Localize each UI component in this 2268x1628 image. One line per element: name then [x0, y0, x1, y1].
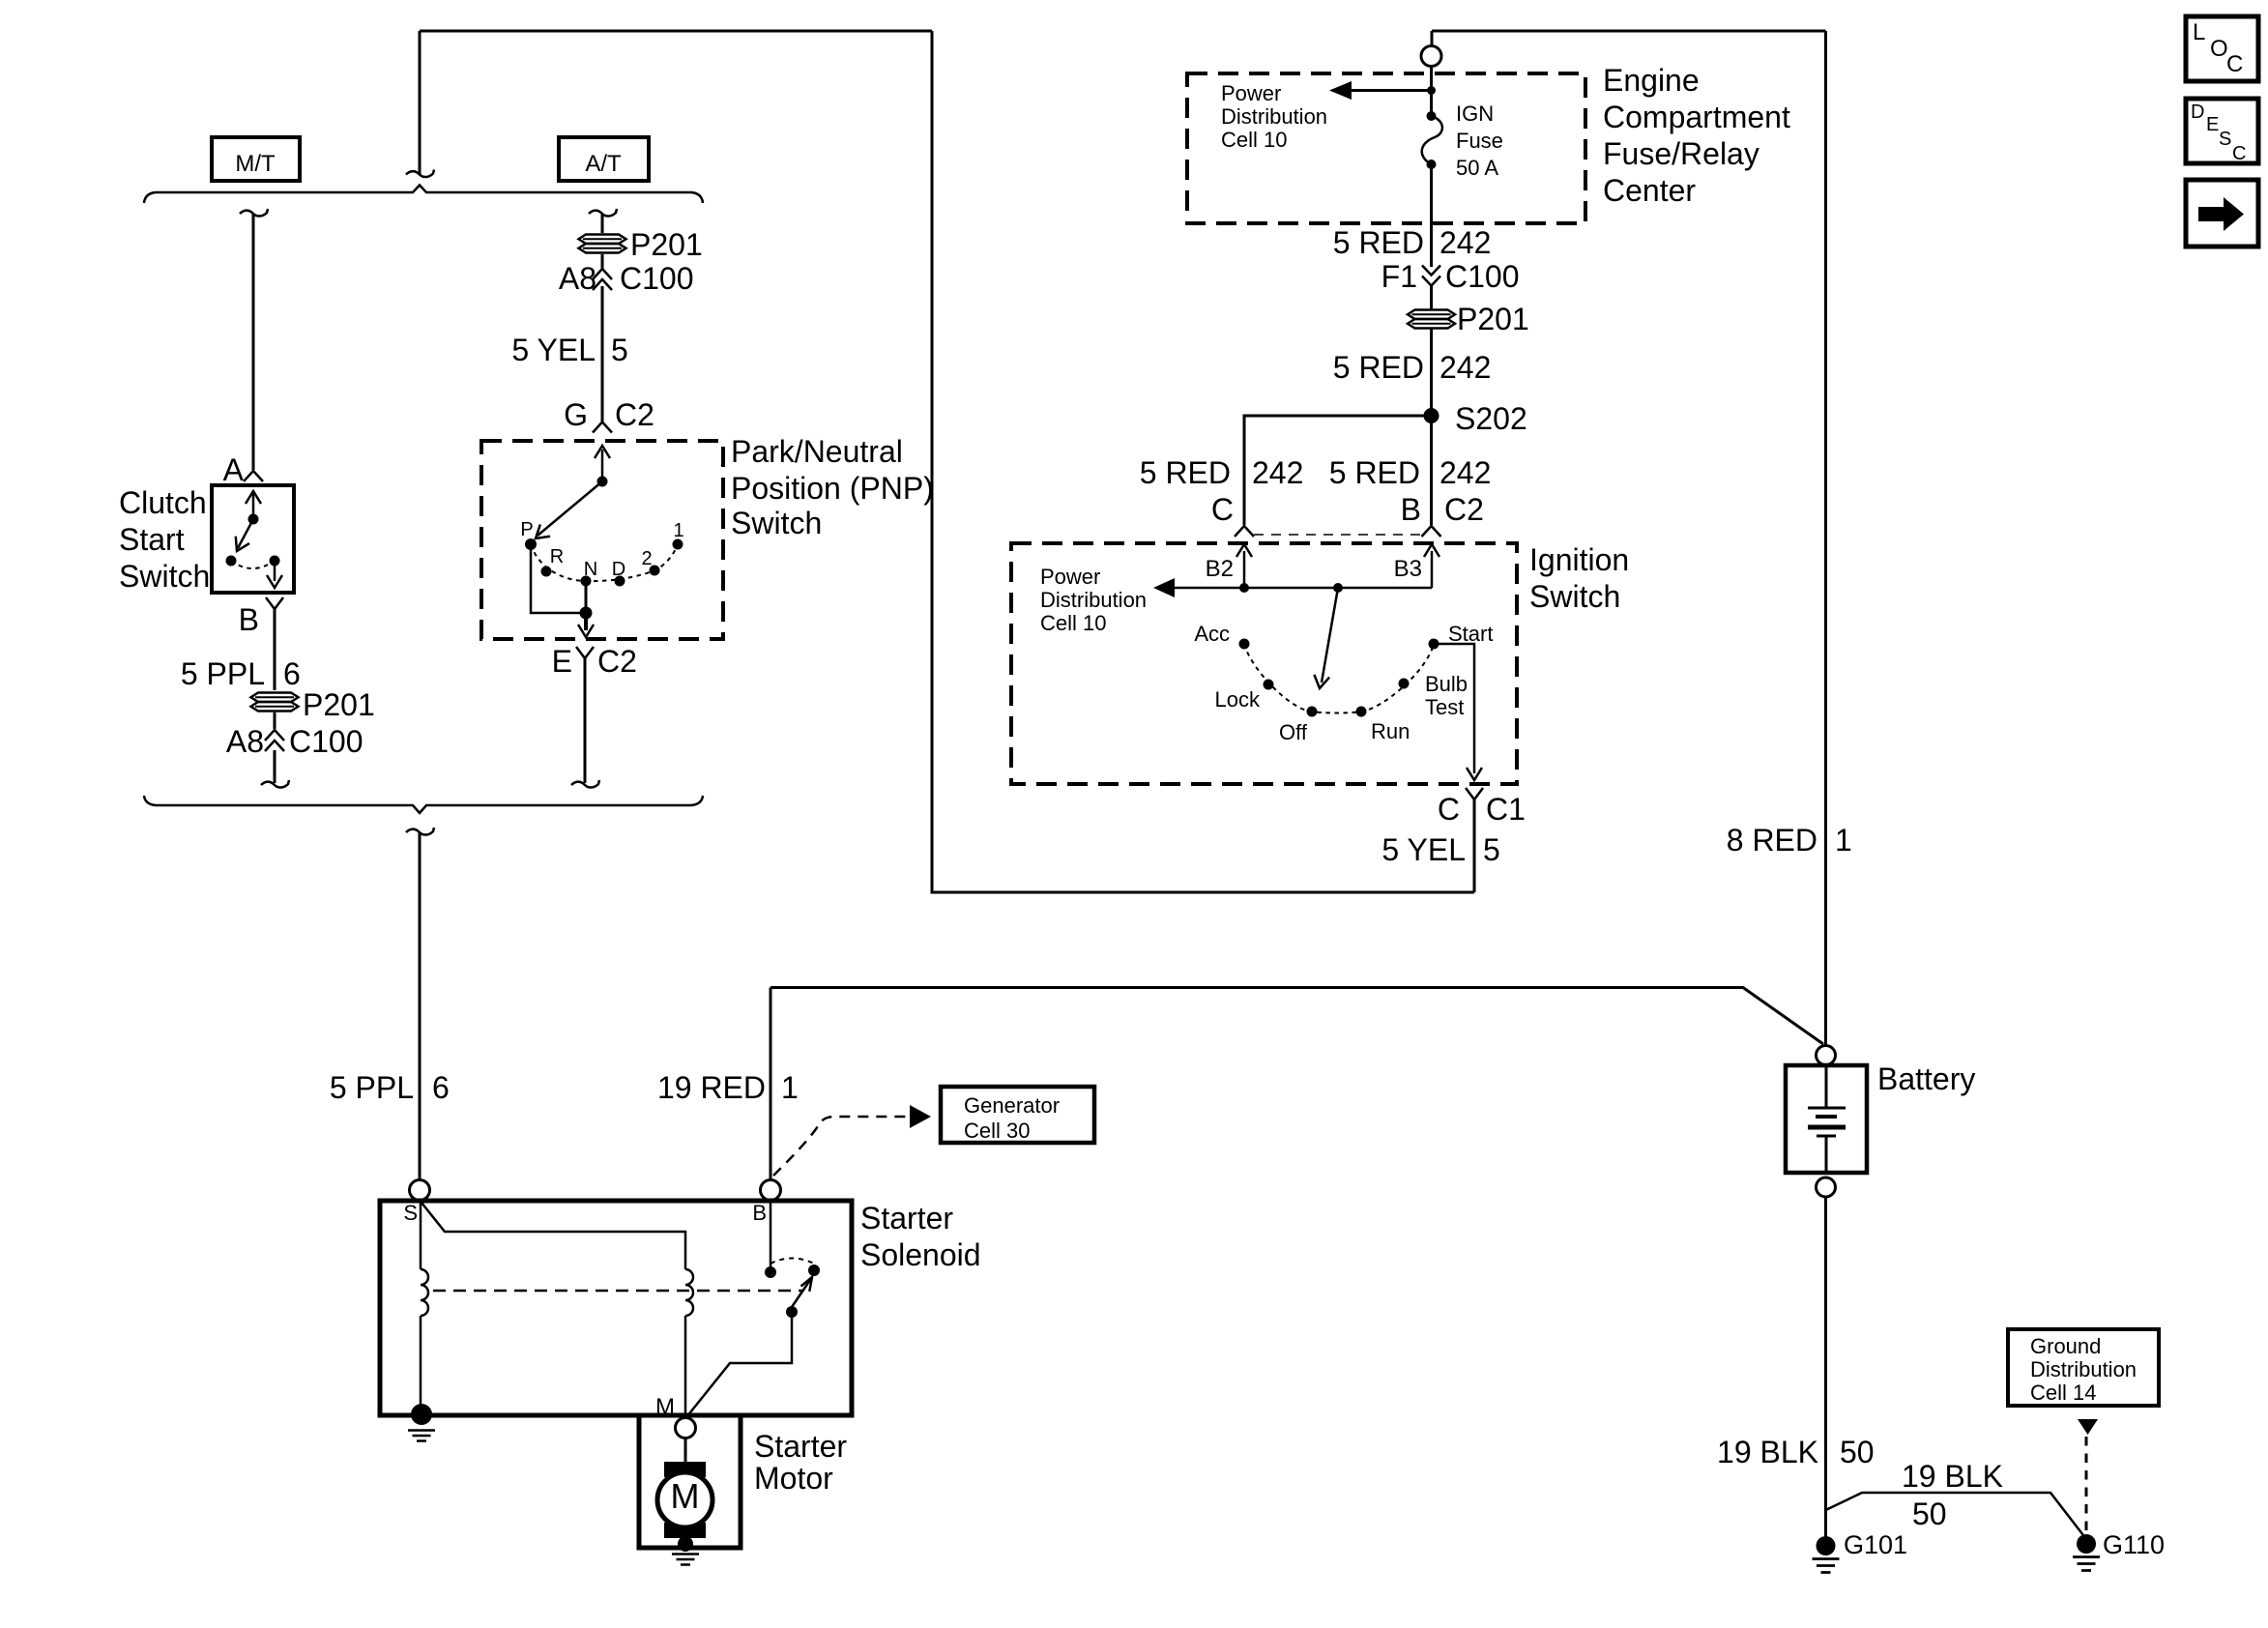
svg-text:A8: A8: [226, 724, 264, 759]
svg-text:C100: C100: [289, 724, 363, 759]
svg-text:F1: F1: [1381, 259, 1417, 294]
svg-text:P201: P201: [1457, 302, 1529, 336]
svg-text:C2: C2: [597, 644, 637, 679]
svg-text:E: E: [2206, 114, 2219, 135]
svg-text:L: L: [2193, 19, 2205, 45]
svg-text:Cell 30: Cell 30: [964, 1119, 1030, 1143]
svg-text:D: D: [612, 559, 625, 580]
svg-text:Compartment: Compartment: [1603, 100, 1790, 134]
svg-text:S: S: [2219, 129, 2231, 150]
svg-text:Cell 14: Cell 14: [2030, 1381, 2096, 1405]
svg-text:5 RED: 5 RED: [1333, 225, 1424, 260]
svg-text:Distribution: Distribution: [2030, 1357, 2137, 1381]
svg-text:C2: C2: [615, 397, 654, 432]
svg-text:A/T: A/T: [585, 151, 622, 177]
svg-text:C: C: [1438, 792, 1460, 827]
svg-text:B2: B2: [1206, 556, 1234, 582]
svg-text:A: A: [223, 452, 245, 487]
svg-text:D: D: [2191, 102, 2204, 123]
svg-text:N: N: [584, 559, 597, 580]
svg-text:Power: Power: [1040, 565, 1100, 589]
svg-text:G110: G110: [2103, 1530, 2165, 1559]
svg-text:O: O: [2210, 36, 2228, 62]
svg-text:S: S: [403, 1201, 418, 1225]
svg-text:Ground: Ground: [2030, 1334, 2101, 1358]
svg-text:G101: G101: [1844, 1530, 1907, 1559]
svg-text:B3: B3: [1394, 556, 1422, 582]
svg-text:S202: S202: [1455, 401, 1527, 436]
svg-text:Center: Center: [1603, 173, 1696, 208]
svg-text:Fuse/Relay: Fuse/Relay: [1603, 136, 1759, 171]
svg-text:242: 242: [1439, 455, 1491, 490]
svg-text:A8: A8: [559, 261, 596, 296]
svg-text:242: 242: [1439, 225, 1491, 260]
svg-text:C1: C1: [1486, 792, 1526, 827]
svg-text:Power: Power: [1221, 81, 1281, 105]
svg-text:B: B: [1401, 492, 1421, 527]
svg-text:Generator: Generator: [964, 1093, 1060, 1118]
svg-text:242: 242: [1439, 350, 1491, 385]
svg-text:5 PPL: 5 PPL: [181, 656, 265, 691]
svg-text:C100: C100: [1445, 259, 1520, 294]
svg-text:C100: C100: [620, 261, 694, 296]
svg-text:E: E: [552, 644, 572, 679]
svg-text:5 RED: 5 RED: [1333, 350, 1424, 385]
svg-text:C: C: [2226, 51, 2243, 77]
svg-text:1: 1: [1835, 823, 1852, 858]
svg-text:IGN: IGN: [1456, 102, 1494, 126]
svg-text:5 YEL: 5 YEL: [1381, 832, 1466, 867]
svg-text:Switch: Switch: [731, 506, 822, 540]
svg-text:Distribution: Distribution: [1221, 104, 1327, 129]
svg-text:5 PPL: 5 PPL: [330, 1070, 414, 1105]
svg-text:Starter: Starter: [860, 1201, 953, 1236]
svg-text:5 RED: 5 RED: [1140, 455, 1231, 490]
svg-text:Cell 10: Cell 10: [1221, 128, 1287, 152]
svg-text:Ignition: Ignition: [1529, 542, 1629, 577]
svg-text:5 YEL: 5 YEL: [511, 333, 596, 367]
svg-text:50 A: 50 A: [1456, 156, 1498, 180]
svg-text:Motor: Motor: [754, 1461, 833, 1496]
svg-text:50: 50: [1840, 1435, 1875, 1469]
svg-text:1: 1: [673, 520, 683, 541]
svg-text:Switch: Switch: [1529, 579, 1620, 614]
svg-text:242: 242: [1252, 455, 1303, 490]
svg-text:Solenoid: Solenoid: [860, 1237, 981, 1272]
svg-text:Acc: Acc: [1194, 622, 1230, 646]
svg-text:2: 2: [641, 548, 652, 569]
svg-text:5: 5: [611, 333, 628, 367]
svg-text:Off: Off: [1279, 720, 1308, 744]
svg-text:C2: C2: [1444, 492, 1484, 527]
svg-text:G: G: [564, 397, 588, 432]
svg-text:R: R: [550, 546, 564, 567]
svg-text:Run: Run: [1371, 719, 1410, 743]
svg-text:50: 50: [1912, 1497, 1947, 1531]
svg-text:1: 1: [781, 1070, 799, 1105]
svg-text:6: 6: [432, 1070, 450, 1105]
svg-text:6: 6: [283, 656, 301, 691]
svg-text:C: C: [2232, 143, 2246, 164]
svg-text:C: C: [1211, 492, 1234, 527]
svg-text:Start: Start: [1448, 622, 1493, 646]
svg-text:P201: P201: [303, 687, 375, 722]
svg-text:Bulb: Bulb: [1425, 672, 1468, 696]
svg-text:Park/Neutral: Park/Neutral: [731, 434, 903, 469]
svg-text:B: B: [752, 1201, 767, 1225]
svg-text:19 BLK: 19 BLK: [1717, 1435, 1818, 1469]
svg-text:Test: Test: [1425, 695, 1464, 719]
svg-text:Clutch: Clutch: [119, 485, 207, 520]
svg-text:5 RED: 5 RED: [1329, 455, 1420, 490]
svg-text:Fuse: Fuse: [1456, 129, 1503, 153]
svg-text:Starter: Starter: [754, 1429, 847, 1464]
svg-text:Lock: Lock: [1215, 687, 1261, 712]
svg-text:19 BLK: 19 BLK: [1902, 1459, 2003, 1494]
svg-text:Cell 10: Cell 10: [1040, 611, 1106, 635]
svg-text:Battery: Battery: [1877, 1061, 1975, 1096]
svg-text:19 RED: 19 RED: [657, 1070, 766, 1105]
svg-text:Start: Start: [119, 522, 185, 557]
svg-text:Switch: Switch: [119, 559, 210, 594]
svg-text:Engine: Engine: [1603, 63, 1700, 98]
svg-text:M: M: [671, 1476, 700, 1516]
svg-text:5: 5: [1483, 832, 1500, 867]
svg-text:P: P: [520, 519, 533, 540]
svg-text:Distribution: Distribution: [1040, 588, 1147, 612]
svg-text:8 RED: 8 RED: [1727, 823, 1817, 858]
svg-text:P201: P201: [630, 227, 703, 262]
svg-text:B: B: [239, 602, 259, 637]
svg-text:M/T: M/T: [235, 151, 276, 177]
svg-text:Position (PNP): Position (PNP): [731, 471, 934, 506]
